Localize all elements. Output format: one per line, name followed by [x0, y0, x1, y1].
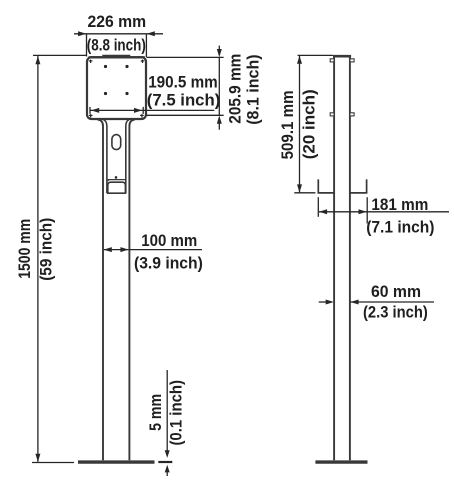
- svg-text:(0.1 inch): (0.1 inch): [168, 380, 186, 446]
- svg-text:60 mm: 60 mm: [371, 283, 421, 301]
- dimension 205.9 mm line: [147, 46, 224, 130]
- mounting plate: [87, 57, 146, 119]
- pole outer left edge: [98, 120, 104, 461]
- hook bracket right: [350, 179, 367, 193]
- base plate left view: [78, 460, 155, 463]
- svg-text:1500 mm: 1500 mm: [16, 219, 34, 279]
- plate top tab: [102, 55, 130, 58]
- corner screw bottom-left: [89, 114, 93, 117]
- corner screw top-left: [89, 60, 93, 63]
- dimension 226 mm line: [74, 31, 163, 57]
- VESA hole bottom-left: [104, 92, 107, 95]
- dimension 1500 mm line: [35, 56, 40, 462]
- pole side left edge: [333, 58, 335, 461]
- corner screw bottom-right: [140, 114, 144, 117]
- pole side right edge: [349, 58, 351, 461]
- clamp block: [108, 182, 126, 193]
- svg-text:(20 inch): (20 inch): [301, 89, 319, 159]
- extension line top-right (205.9 mm top): [147, 56, 224, 58]
- extension line top-left (1500 mm top): [33, 54, 87, 56]
- dimension 5 mm marker: [158, 370, 172, 476]
- neck inner left line: [104, 120, 107, 193]
- svg-text:(7.1 inch): (7.1 inch): [366, 218, 434, 236]
- clamp dot: [115, 176, 118, 179]
- svg-text:(8.1 inch): (8.1 inch): [244, 54, 262, 124]
- obround slot hole: [112, 135, 121, 150]
- dimension 181 mm: [318, 197, 449, 223]
- plate top edge reinforcement: [89, 56, 145, 58]
- lower nub left: [330, 113, 334, 116]
- hook bracket left: [318, 179, 334, 193]
- svg-text:(59 inch): (59 inch): [38, 218, 56, 281]
- corner screw top-right: [141, 60, 145, 63]
- upper nub right: [350, 59, 354, 62]
- VESA hole top-left: [104, 65, 107, 68]
- svg-text:181 mm: 181 mm: [371, 196, 428, 214]
- upper nub left: [330, 59, 334, 62]
- VESA hole top-right: [125, 65, 128, 68]
- svg-text:190.5 mm: 190.5 mm: [148, 74, 218, 92]
- svg-text:(8.8 inch): (8.8 inch): [87, 37, 146, 55]
- svg-text:205.9 mm: 205.9 mm: [227, 54, 245, 124]
- clamp top line: [108, 180, 126, 182]
- VESA hole bottom-right: [125, 92, 128, 95]
- base plate right view: [315, 460, 367, 463]
- lower nub right: [350, 113, 354, 116]
- svg-text:509.1 mm: 509.1 mm: [279, 90, 297, 159]
- svg-text:(7.5 inch): (7.5 inch): [147, 91, 221, 109]
- svg-text:5 mm: 5 mm: [147, 394, 165, 431]
- svg-text:226 mm: 226 mm: [88, 13, 147, 31]
- dimension 100 mm arrow: [104, 247, 202, 252]
- dimension 60 mm: [319, 300, 434, 305]
- svg-text:100 mm: 100 mm: [141, 232, 197, 250]
- extension line bottom-left (1500 mm bottom): [32, 462, 74, 464]
- dimension 190.5 mm arrow: [90, 107, 214, 114]
- pole outer right edge: [129, 120, 135, 461]
- dimension 509.1 mm line: [294, 55, 333, 192]
- svg-text:(3.9 inch): (3.9 inch): [134, 254, 203, 272]
- neck inner right line: [126, 120, 129, 193]
- pole top cap: [333, 55, 351, 58]
- svg-text:(2.3 inch): (2.3 inch): [363, 303, 428, 321]
